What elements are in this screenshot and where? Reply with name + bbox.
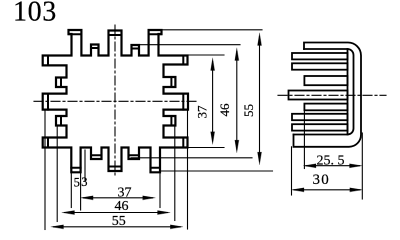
dim 37 vertical bbox=[211, 58, 215, 144]
fin tip cap inner lines: left fins bbox=[48, 56, 61, 148]
svg-text:37: 37 bbox=[195, 105, 210, 119]
centerline horizontal (left view) bbox=[34, 100, 197, 102]
dim 55 horizontal bbox=[51, 225, 183, 229]
centerline vertical (left view) bbox=[114, 25, 116, 178]
side view: fin bar 2 bbox=[292, 53, 348, 59]
svg-text:30: 30 bbox=[313, 172, 330, 188]
extension line bottom 55 bbox=[160, 170, 273, 172]
svg-text:46: 46 bbox=[115, 199, 129, 214]
heatsink cross-section outline bbox=[43, 30, 188, 172]
fin tip cap inner lines: right fins bbox=[171, 56, 183, 148]
svg-text:25. 5: 25. 5 bbox=[317, 153, 345, 168]
extension 30 right bbox=[361, 133, 363, 199]
svg-text:46: 46 bbox=[217, 103, 232, 117]
extension line bottom 46 bbox=[131, 157, 252, 159]
svg-text:55: 55 bbox=[112, 214, 126, 229]
extension line top 37 bbox=[188, 54, 225, 56]
dim 37 horizontal bbox=[81, 196, 156, 200]
svg-text:3: 3 bbox=[81, 175, 87, 189]
dim 30 bbox=[292, 188, 363, 192]
side view: fin bar 3 bbox=[292, 63, 348, 69]
side view: fin bar 6 bbox=[304, 104, 347, 111]
svg-text:55: 55 bbox=[241, 104, 256, 117]
dim 55 vertical bbox=[258, 33, 262, 165]
side view: fin bar 7 bbox=[292, 114, 348, 120]
fin tip cap inner lines: bottom fins bbox=[71, 155, 160, 168]
dim 46 horizontal bbox=[62, 211, 170, 215]
side view: top flange inner bbox=[294, 49, 354, 135]
side view: fin bar 5 (center) bbox=[289, 91, 348, 100]
extension verticals bottom-right (37,46,55) bbox=[159, 172, 161, 207]
side view: spine inner wall (fin root line) bbox=[347, 49, 349, 135]
side view: fin bar 4 bbox=[304, 76, 347, 85]
extension line top 55 bbox=[162, 29, 263, 31]
fin tip cap inner lines: top fins bbox=[69, 34, 162, 48]
svg-text:5: 5 bbox=[74, 175, 80, 189]
extension verticals bottom-left (55,46) bbox=[44, 110, 46, 230]
dim 25.5 bbox=[304, 164, 363, 168]
extension verticals 5 and 3 bbox=[70, 172, 72, 207]
centerline horizontal (right view) bbox=[278, 94, 386, 96]
extension 25.5 left bbox=[303, 110, 305, 168]
side view: top flange outer and spine outer wall bbox=[294, 43, 362, 147]
extension line top 46 bbox=[131, 44, 240, 46]
extension line bottom 37 bbox=[188, 147, 225, 149]
side view: fin bar 8 bbox=[292, 124, 348, 130]
extension 30 left bbox=[291, 147, 293, 195]
dim 46 vertical bbox=[235, 48, 239, 153]
svg-text:103: 103 bbox=[13, 0, 57, 28]
